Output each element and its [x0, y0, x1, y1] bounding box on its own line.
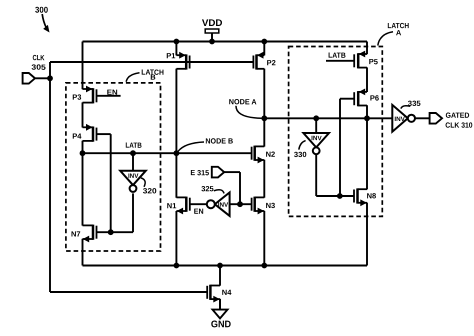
svg-text:E 315: E 315 [190, 168, 209, 177]
svg-text:NODE B: NODE B [205, 137, 233, 146]
svg-text:P3: P3 [72, 93, 81, 102]
svg-text:335: 335 [408, 99, 421, 108]
svg-text:300: 300 [35, 5, 48, 15]
svg-text:EN: EN [194, 207, 204, 216]
svg-text:EN: EN [107, 88, 118, 97]
svg-text:CLK 310: CLK 310 [445, 121, 472, 130]
svg-text:N2: N2 [266, 150, 276, 159]
svg-text:320: 320 [143, 186, 157, 195]
svg-text:N1: N1 [167, 201, 177, 210]
svg-text:P6: P6 [370, 94, 379, 103]
svg-text:A: A [396, 28, 402, 37]
svg-text:B: B [150, 73, 156, 82]
svg-text:330: 330 [294, 150, 307, 159]
svg-text:INV: INV [311, 135, 322, 142]
svg-text:P4: P4 [72, 132, 82, 141]
svg-text:N3: N3 [266, 201, 276, 210]
svg-text:P2: P2 [267, 58, 276, 67]
svg-text:INV: INV [218, 202, 229, 209]
svg-text:P5: P5 [369, 57, 378, 66]
svg-text:GATED: GATED [445, 111, 470, 120]
svg-text:305: 305 [31, 63, 45, 72]
svg-text:LATB: LATB [328, 51, 346, 60]
svg-text:N7: N7 [71, 230, 81, 239]
svg-text:CLK: CLK [32, 53, 45, 62]
svg-text:325: 325 [201, 184, 214, 193]
svg-text:N4: N4 [222, 288, 232, 297]
svg-text:INV: INV [128, 173, 139, 180]
svg-text:VDD: VDD [202, 18, 223, 29]
svg-text:NODE A: NODE A [229, 97, 257, 106]
svg-text:N8: N8 [367, 191, 377, 200]
svg-text:P1: P1 [166, 51, 175, 60]
svg-text:GND: GND [211, 319, 231, 330]
svg-text:INV: INV [394, 116, 405, 123]
svg-text:LATB: LATB [125, 141, 142, 150]
